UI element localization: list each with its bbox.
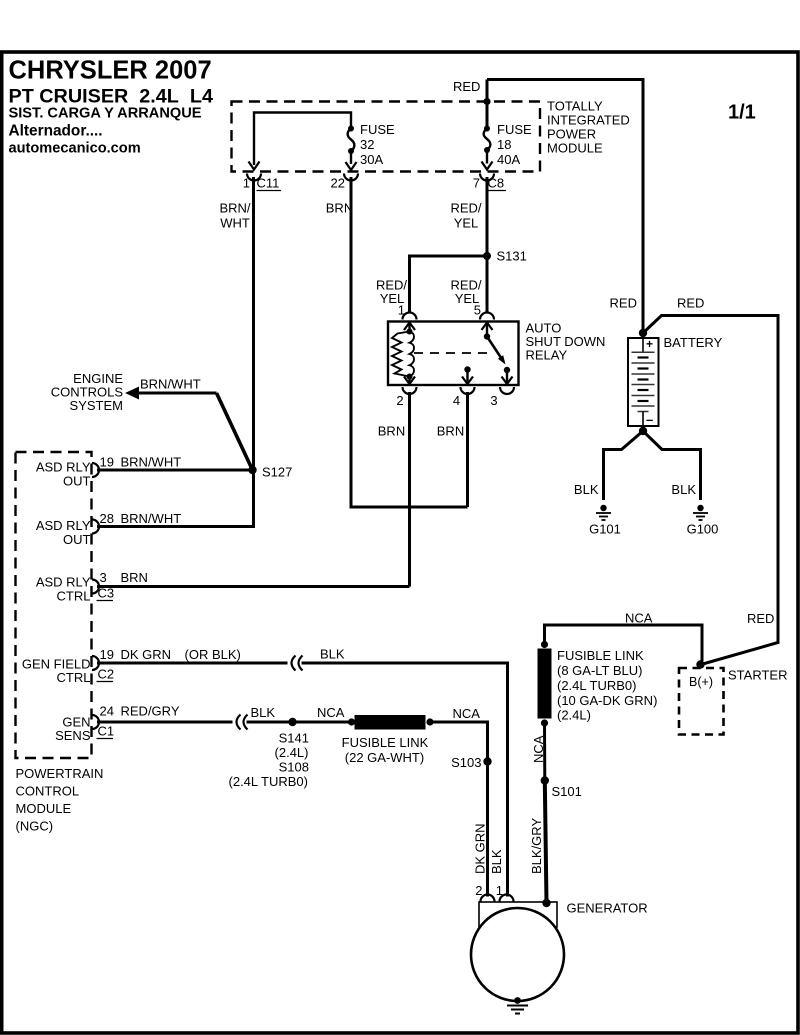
- node S131: [483, 252, 491, 260]
- generator G1 body: [471, 908, 564, 1001]
- wire DK GRN / BLK to generator pin1: [97, 656, 508, 897]
- wire NCA below fusible link: [543, 723, 546, 781]
- connector arc pin 7 C8: [480, 174, 494, 181]
- svg-text:OUT: OUT: [63, 474, 91, 489]
- svg-text:G100: G100: [687, 522, 719, 537]
- svg-text:BLK: BLK: [489, 849, 504, 874]
- fuse F18 value label: [497, 122, 532, 167]
- label ASD RLY OUT 19: [36, 460, 91, 489]
- svg-text:CTRL: CTRL: [57, 589, 91, 604]
- svg-text:S103: S103: [451, 755, 481, 770]
- connector C3 label: [97, 586, 115, 601]
- svg-text:S127: S127: [262, 465, 292, 480]
- wire BRN/WHT pin1 to S127: [252, 177, 255, 470]
- svg-text:BRN/WHT: BRN/WHT: [121, 455, 182, 470]
- svg-text:CONTROL: CONTROL: [16, 784, 80, 799]
- svg-text:BLK: BLK: [671, 482, 696, 497]
- wire BLK/GRY to generator: [545, 781, 547, 904]
- connector arc PCM pin 24: [92, 715, 99, 729]
- wire 3 BRN to relay pin2: [97, 585, 410, 588]
- wire TIPM internal to pin 1: [254, 113, 351, 166]
- connector arc generator pin 2: [481, 895, 495, 902]
- svg-text:RED: RED: [610, 296, 637, 311]
- label BRN/WHT: [219, 201, 250, 231]
- svg-text:(OR BLK): (OR BLK): [185, 647, 241, 662]
- svg-text:1/1: 1/1: [728, 102, 756, 124]
- svg-text:CHRYSLER 2007: CHRYSLER 2007: [9, 57, 212, 85]
- svg-text:TOTALLY: TOTALLY: [547, 99, 603, 114]
- connector C2 label: [97, 667, 115, 682]
- wire RED/GRY with inline break: [97, 715, 352, 730]
- svg-text:NCA: NCA: [625, 611, 653, 626]
- svg-text:BRN/: BRN/: [219, 201, 250, 216]
- wire BRN relay pin4: [466, 392, 469, 507]
- svg-text:POWERTRAIN: POWERTRAIN: [16, 766, 104, 781]
- svg-text:(22 GA-WHT): (22 GA-WHT): [345, 750, 424, 765]
- svg-text:28: 28: [100, 511, 114, 526]
- fusible link FL2 (8 GA-LT BLU): [538, 641, 552, 727]
- label ASD RLY CTRL: [36, 575, 91, 604]
- svg-text:automecanico.com: automecanico.com: [9, 141, 141, 157]
- node junction on TIPM edge: [483, 98, 490, 105]
- svg-text:CTRL: CTRL: [57, 670, 91, 685]
- svg-text:MODULE: MODULE: [547, 141, 603, 156]
- svg-text:S131: S131: [497, 249, 527, 264]
- svg-text:RED: RED: [453, 79, 480, 94]
- svg-text:40A: 40A: [497, 152, 520, 167]
- label RED/YEL pin1: [376, 278, 407, 307]
- svg-text:ASD RLY: ASD RLY: [36, 575, 91, 590]
- wire S131 branch to relay pin1: [410, 256, 488, 314]
- wire BLK to G101: [604, 431, 644, 500]
- node S103: [483, 757, 491, 765]
- relay K1 box: [388, 322, 519, 386]
- svg-text:(2.4L TURB0): (2.4L TURB0): [229, 774, 308, 789]
- svg-text:BRN: BRN: [378, 424, 405, 439]
- connector arc generator pin 1: [500, 895, 514, 902]
- svg-text:(2.4L TURB0): (2.4L TURB0): [557, 678, 636, 693]
- svg-text:BRN/WHT: BRN/WHT: [140, 377, 201, 392]
- svg-text:GENERATOR: GENERATOR: [567, 901, 648, 916]
- svg-text:S141: S141: [279, 731, 309, 746]
- node S141: [288, 718, 296, 726]
- wire 19 BRN/WHT to S127: [97, 469, 253, 472]
- svg-text:RED/: RED/: [450, 201, 481, 216]
- label GEN FIELD CTRL: [22, 657, 91, 686]
- fuse F18: [484, 126, 491, 164]
- svg-text:FUSE: FUSE: [360, 122, 395, 137]
- connector C8 label: [488, 176, 507, 191]
- svg-text:32: 32: [360, 137, 374, 152]
- ground G100: [693, 505, 708, 520]
- starter dashed box: [679, 668, 724, 735]
- svg-text:3: 3: [100, 570, 107, 585]
- svg-text:RED/GRY: RED/GRY: [121, 704, 180, 719]
- svg-text:C8: C8: [488, 176, 505, 191]
- label GEN SENS: [55, 715, 91, 744]
- connector arc relay pin 4: [461, 387, 475, 394]
- svg-text:+: +: [646, 337, 653, 351]
- battery B1: [628, 329, 659, 435]
- svg-text:FUSE: FUSE: [497, 122, 532, 137]
- arrow pin 22: [346, 162, 357, 170]
- wire BRN relay pin2: [408, 392, 411, 587]
- svg-text:18: 18: [497, 137, 511, 152]
- label PCM: [16, 766, 104, 834]
- svg-text:DK GRN: DK GRN: [473, 823, 488, 874]
- connector arc pin 1 C11: [247, 174, 261, 181]
- svg-text:BRN: BRN: [326, 201, 353, 216]
- label ENGINE CONTROLS SYSTEM: [51, 371, 124, 413]
- svg-text:1: 1: [243, 176, 250, 191]
- wire BRN pin22 down: [351, 177, 468, 507]
- wire NCA to generator pin2: [430, 722, 488, 897]
- label FUSIBLE LINK (22 GA-WHT): [342, 735, 429, 765]
- svg-text:22: 22: [331, 176, 345, 191]
- svg-text:C1: C1: [98, 724, 115, 739]
- connector arc PCM pin 19: [92, 463, 99, 477]
- relay coil: [392, 323, 415, 385]
- svg-text:(NGC): (NGC): [16, 819, 54, 834]
- svg-text:24: 24: [100, 704, 114, 719]
- svg-text:ASD RLY: ASD RLY: [36, 460, 91, 475]
- arrow pin 1: [249, 162, 260, 170]
- wire to engine controls with arrow: [125, 387, 253, 471]
- wire RED/YEL pin7 to relay pin5: [486, 177, 489, 314]
- svg-text:WHT: WHT: [220, 216, 250, 231]
- svg-text:BRN/WHT: BRN/WHT: [121, 511, 182, 526]
- label S141 / S108: [229, 731, 309, 790]
- svg-text:STARTER: STARTER: [728, 668, 787, 683]
- fusible link FL1 (22 GA-WHT): [348, 715, 434, 730]
- svg-text:BATTERY: BATTERY: [664, 335, 723, 350]
- node S101: [541, 776, 549, 784]
- svg-text:B(+): B(+): [689, 675, 713, 689]
- connector C1 label: [97, 724, 115, 739]
- svg-text:SIST. CARGA Y ARRANQUE: SIST. CARGA Y ARRANQUE: [9, 106, 202, 122]
- svg-text:C11: C11: [257, 176, 280, 191]
- svg-text:FUSIBLE LINK: FUSIBLE LINK: [342, 735, 429, 750]
- svg-text:S108: S108: [279, 760, 309, 775]
- fuse F32: [348, 126, 355, 165]
- node generator B+ terminal: [542, 899, 550, 907]
- connector arc PCM pin 28: [92, 520, 99, 534]
- wire RED from TIPM to battery: [487, 80, 643, 331]
- svg-text:NCA: NCA: [317, 705, 345, 720]
- svg-text:MODULE: MODULE: [16, 801, 72, 816]
- TIPM label: [547, 99, 630, 156]
- relay switch: [482, 323, 513, 385]
- ground generator: [507, 997, 528, 1013]
- ground G101: [596, 505, 611, 520]
- svg-text:RELAY: RELAY: [526, 348, 568, 363]
- relay pin 4 contact: [462, 366, 473, 384]
- svg-text:(2.4L): (2.4L): [557, 708, 591, 723]
- svg-text:RED: RED: [747, 611, 774, 626]
- svg-text:(2.4L): (2.4L): [275, 745, 309, 760]
- svg-text:NCA: NCA: [453, 706, 481, 721]
- relay label: [526, 321, 606, 363]
- svg-text:RED: RED: [677, 296, 704, 311]
- node S127: [248, 466, 256, 474]
- connector arc PCM pin 3: [92, 580, 99, 594]
- connector C11 label: [257, 176, 282, 191]
- svg-text:5: 5: [474, 303, 481, 318]
- svg-text:BRN: BRN: [121, 570, 148, 585]
- connector arc relay pin 1: [403, 313, 417, 320]
- svg-text:BLK: BLK: [320, 647, 345, 662]
- svg-text:BLK: BLK: [574, 482, 599, 497]
- svg-text:YEL: YEL: [454, 216, 479, 231]
- svg-text:7: 7: [473, 176, 480, 191]
- svg-text:Alternador....: Alternador....: [9, 123, 103, 140]
- wire RED battery to starter: [643, 316, 778, 665]
- connector arc relay pin 2: [403, 387, 417, 394]
- svg-text:DK GRN: DK GRN: [121, 647, 172, 662]
- title block: [9, 57, 213, 157]
- wire 28 BRN/WHT to S127: [97, 470, 254, 527]
- wire into fuse 18: [486, 80, 489, 129]
- node B(+) junction: [696, 660, 704, 668]
- PCM dashed box: [16, 452, 92, 758]
- svg-text:SENS: SENS: [55, 728, 91, 743]
- svg-text:G101: G101: [589, 522, 621, 537]
- label RED/YEL pin5: [450, 278, 481, 307]
- svg-text:2: 2: [475, 883, 482, 898]
- svg-text:19: 19: [100, 455, 114, 470]
- label ASD RLY OUT 28: [36, 518, 91, 547]
- label RED/YEL: [450, 201, 481, 231]
- svg-text:C2: C2: [98, 667, 115, 682]
- svg-text:INTEGRATED: INTEGRATED: [547, 113, 630, 128]
- svg-text:OUT: OUT: [63, 532, 91, 547]
- svg-text:BLK: BLK: [251, 705, 276, 720]
- fuse F32 value label: [360, 122, 395, 167]
- svg-text:BRN: BRN: [437, 424, 464, 439]
- svg-text:NCA: NCA: [531, 735, 546, 763]
- relay internal dashed link: [414, 352, 492, 354]
- svg-text:30A: 30A: [360, 152, 383, 167]
- svg-text:BLK/GRY: BLK/GRY: [529, 818, 544, 874]
- wire BLK to G100: [643, 431, 701, 500]
- connector arc relay pin 5: [480, 313, 494, 320]
- svg-text:FUSIBLE LINK: FUSIBLE LINK: [557, 648, 644, 663]
- svg-text:POWER: POWER: [547, 127, 596, 142]
- svg-text:4: 4: [453, 393, 460, 408]
- svg-text:SYSTEM: SYSTEM: [70, 398, 123, 413]
- svg-text:–: –: [646, 412, 653, 427]
- svg-text:2: 2: [396, 393, 403, 408]
- connector arc relay pin 3: [500, 387, 514, 394]
- svg-text:3: 3: [490, 393, 497, 408]
- svg-text:S101: S101: [552, 784, 582, 799]
- generator connector box: [479, 902, 557, 927]
- arrow pin 7: [482, 162, 493, 170]
- svg-text:PT CRUISER 2.4L L4: PT CRUISER 2.4L L4: [9, 86, 213, 108]
- wire NCA top to starter: [545, 625, 703, 661]
- svg-text:19: 19: [100, 647, 114, 662]
- svg-text:ASD RLY: ASD RLY: [36, 518, 91, 533]
- TIPM dashed box: [232, 102, 541, 172]
- svg-text:(8 GA-LT BLU): (8 GA-LT BLU): [557, 663, 642, 678]
- svg-text:(10 GA-DK GRN): (10 GA-DK GRN): [557, 693, 657, 708]
- label FUSIBLE LINK (8 GA-LT BLU): [557, 648, 657, 723]
- connector arc PCM pin 19 C2: [92, 656, 99, 670]
- connector arc pin 22: [344, 174, 358, 181]
